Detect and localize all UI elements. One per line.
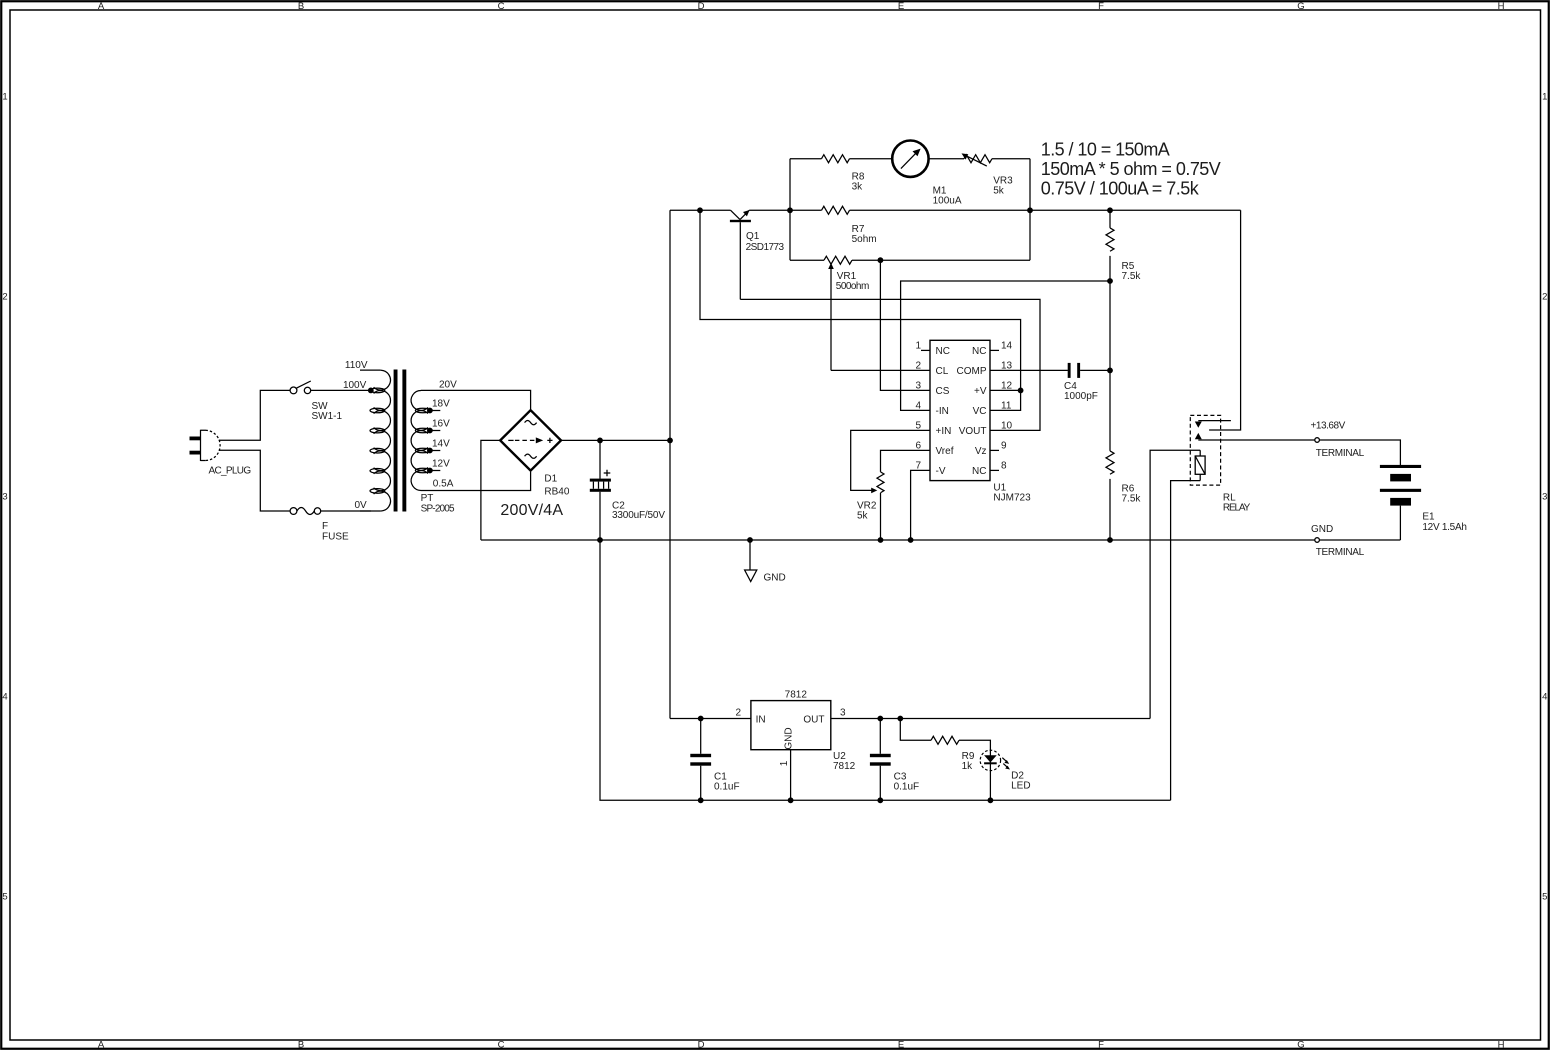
svg-text:8: 8: [1001, 460, 1007, 471]
svg-text:5k: 5k: [993, 186, 1005, 197]
svg-text:12V: 12V: [432, 459, 450, 470]
svg-text:LED: LED: [1011, 781, 1030, 792]
svg-text:D: D: [698, 1, 705, 12]
node 100V tap dot: [368, 388, 374, 394]
svg-text:4: 4: [2, 692, 7, 703]
svg-text:5: 5: [1542, 892, 1547, 903]
pin 14 stub: [990, 349, 999, 351]
pin 1 stub: [921, 349, 930, 351]
capacitor C4 1000pF: [1064, 363, 1110, 402]
svg-text:H: H: [1498, 1040, 1505, 1050]
op-amp regulator U1 NJM723: [915, 340, 1031, 503]
svg-text:4: 4: [1542, 692, 1547, 703]
svg-text:110V: 110V: [345, 360, 368, 371]
svg-text:3: 3: [915, 380, 921, 391]
svg-text:CL: CL: [936, 366, 949, 377]
pin names left: [936, 346, 954, 477]
wire -IN pin4 to R5 bottom: [901, 281, 1110, 410]
node emitter rail x790 junction: [787, 207, 793, 213]
AC plug AC_PLUG: [190, 430, 252, 477]
svg-text:150mA * 5 ohm = 0.75V: 150mA * 5 ohm = 0.75V: [1041, 159, 1221, 179]
svg-text:1: 1: [1542, 92, 1547, 103]
svg-text:200V/4A: 200V/4A: [500, 502, 563, 519]
wire main supply riser: [669, 210, 671, 718]
svg-text:7.5k: 7.5k: [1122, 271, 1142, 282]
svg-text:-V: -V: [936, 466, 946, 477]
wire meter loop right side: [1029, 159, 1031, 261]
meter M1 100uA: [892, 141, 962, 207]
wire relay coil to led rail: [1171, 481, 1201, 801]
wire collector rail: [670, 209, 731, 211]
wire relay coil to 7812 output: [1150, 450, 1200, 718]
wire 20V tap to bridge AC1: [421, 390, 531, 409]
node +V junction: [1018, 388, 1024, 394]
relay moving contact: [1195, 433, 1202, 439]
transformer PT SP-2005: [343, 360, 457, 514]
potentiometer VR1 500ohm: [790, 256, 1030, 370]
svg-text:3: 3: [1542, 492, 1547, 503]
svg-text:PT: PT: [421, 493, 434, 504]
svg-text:12: 12: [1001, 380, 1013, 391]
svg-text:Vz: Vz: [975, 446, 987, 457]
svg-text:A: A: [98, 1040, 105, 1050]
svg-text:11: 11: [1001, 400, 1012, 411]
wire 7812 input: [670, 718, 751, 720]
svg-text:C: C: [498, 1040, 505, 1050]
svg-text:NC: NC: [972, 466, 986, 477]
svg-text:IN: IN: [756, 714, 766, 725]
svg-text:SW1-1: SW1-1: [312, 411, 343, 422]
svg-text:14V: 14V: [432, 439, 450, 450]
wire plug to fuse: [219, 450, 290, 511]
svg-text:3k: 3k: [852, 181, 864, 192]
pin names right: [957, 346, 987, 477]
svg-text:Q1: Q1: [746, 231, 760, 242]
node terminal GND: [1315, 538, 1320, 543]
svg-text:VOUT: VOUT: [959, 426, 987, 437]
svg-text:COMP: COMP: [957, 366, 987, 377]
svg-text:0.75V / 100uA = 7.5k: 0.75V / 100uA = 7.5k: [1041, 179, 1200, 199]
transistor Q1 2SD1773: [730, 210, 785, 299]
svg-text:GND: GND: [1311, 524, 1333, 535]
node emitter rail x1030 junction: [1027, 207, 1033, 213]
svg-text:500ohm: 500ohm: [836, 281, 870, 292]
svg-text:2: 2: [2, 292, 7, 303]
svg-text:7: 7: [915, 460, 921, 471]
node ground rail R6 junction: [1107, 537, 1113, 543]
transformer core: [394, 370, 398, 512]
resistor R8 3k: [790, 155, 892, 193]
svg-text:F: F: [322, 521, 328, 532]
resistor R5 7.5k: [1106, 210, 1141, 451]
node ground rail VR2 junction: [878, 537, 884, 543]
svg-text:2: 2: [1542, 292, 1547, 303]
node plus rail riser junction: [667, 438, 673, 444]
svg-text:B: B: [298, 1040, 304, 1050]
wire CS pin3 to VR1 row: [880, 260, 930, 390]
svg-text:GND: GND: [784, 727, 795, 749]
svg-text:NC: NC: [972, 346, 986, 357]
wire CL pin2 to VR1 wiper: [831, 369, 930, 371]
svg-text:H: H: [1498, 1, 1505, 12]
node COMP R5 junction: [1107, 368, 1113, 374]
switch SW SW1-1: [290, 381, 342, 422]
svg-text:B: B: [298, 1, 304, 12]
wire COMP pin13 to C4: [990, 369, 1068, 371]
svg-text:+13.68V: +13.68V: [1311, 421, 1346, 432]
battery E1 12V 1.5Ah: [1380, 465, 1467, 540]
pin numbers left: [915, 340, 921, 471]
svg-text:CS: CS: [936, 386, 950, 397]
secondary tap stubs 18V 16V 14V 12V: [430, 411, 441, 471]
wire -V pin7 to ground rail: [911, 470, 930, 540]
svg-text:4: 4: [915, 400, 921, 411]
pin 8 stub: [990, 469, 999, 471]
wire plug to switch: [219, 390, 290, 440]
resistor R6 7.5k: [1106, 451, 1141, 540]
wire fuse to 0V tap: [321, 510, 371, 512]
svg-text:E1: E1: [1422, 512, 1435, 523]
svg-text:100uA: 100uA: [933, 195, 962, 206]
wire GND terminal to battery minus: [1319, 539, 1400, 541]
svg-text:9: 9: [1001, 440, 1007, 451]
svg-text:2: 2: [915, 360, 921, 371]
svg-text:100V: 100V: [343, 380, 367, 391]
svg-text:D1: D1: [544, 474, 557, 485]
capacitor C1 0.1uF: [690, 719, 739, 801]
svg-text:G: G: [1297, 1040, 1304, 1050]
node led rail C1 junction: [698, 797, 704, 803]
wire +V pin12 stub: [990, 389, 1021, 391]
svg-text:5: 5: [2, 892, 7, 903]
svg-text:TERMINAL: TERMINAL: [1316, 448, 1365, 459]
svg-text:7.5k: 7.5k: [1122, 493, 1142, 504]
node led rail D2 junction: [988, 797, 994, 803]
node ground rail -V junction: [908, 537, 914, 543]
node emitter rail R5 junction: [1107, 207, 1113, 213]
potentiometer VR2 5k: [857, 472, 884, 540]
svg-text:AC_PLUG: AC_PLUG: [209, 466, 252, 477]
wire 0.5A tap to bridge AC2: [421, 472, 531, 491]
svg-text:6: 6: [915, 440, 921, 451]
svg-text:TERMINAL: TERMINAL: [1316, 547, 1365, 558]
wire 7812 output: [831, 718, 1150, 720]
capacitor C3 0.1uF: [870, 719, 919, 801]
wire relay contact to battery plus: [1198, 439, 1315, 441]
svg-text:C: C: [498, 1, 505, 12]
svg-text:14: 14: [1001, 340, 1013, 351]
pin numbers right: [1001, 340, 1013, 471]
primary winding: [360, 370, 391, 511]
wire collector to +V pin12 and VC pin11: [700, 210, 1021, 410]
svg-text:0.5A: 0.5A: [433, 479, 454, 490]
wire emitter rail down to relay contact: [1209, 210, 1241, 430]
fuse F FUSE: [290, 508, 349, 543]
svg-text:12V 1.5Ah: 12V 1.5Ah: [1422, 522, 1467, 533]
svg-text:A: A: [98, 1, 105, 12]
resistor R7 5ohm: [822, 206, 877, 245]
relay fixed contact: [1198, 420, 1231, 422]
svg-text:RB40: RB40: [544, 487, 569, 498]
node VR1 row CS junction: [878, 257, 884, 263]
svg-text:GND: GND: [764, 573, 786, 584]
svg-text:VC: VC: [973, 406, 987, 417]
svg-text:+V: +V: [974, 386, 987, 397]
resistor R9 1k: [900, 719, 990, 773]
rheostat VR3 5k: [929, 153, 1030, 196]
node terminal +13.68V: [1315, 438, 1320, 443]
ground GND: [745, 540, 786, 584]
wire base to VOUT pin10: [740, 299, 1040, 430]
node R9 branch junction: [897, 716, 903, 722]
wire bridge minus to ground rail: [481, 440, 500, 540]
svg-text:1000pF: 1000pF: [1064, 391, 1098, 402]
svg-text:F: F: [1098, 1040, 1104, 1050]
svg-text:1: 1: [779, 760, 790, 766]
node -IN R5 junction: [1107, 278, 1113, 284]
node ground rail C2 junction: [597, 537, 603, 543]
node led rail U2 GND junction: [788, 797, 794, 803]
svg-text:RELAY: RELAY: [1223, 503, 1251, 514]
bridge rectifier D1 RB40: [500, 410, 570, 519]
svg-text:1: 1: [915, 340, 921, 351]
svg-text:2: 2: [735, 708, 741, 719]
node collector branch junction: [697, 207, 703, 213]
node ground rail GND branch junction: [747, 537, 753, 543]
node led rail C3 junction: [877, 797, 883, 803]
wire led section ground rail: [600, 540, 1171, 800]
svg-text:G: G: [1297, 1, 1304, 12]
wire terminal to battery: [1319, 440, 1400, 465]
annotation note: [1041, 140, 1221, 199]
svg-text:1: 1: [2, 92, 7, 103]
node C3 top junction: [877, 716, 883, 722]
svg-text:16V: 16V: [432, 419, 450, 430]
svg-text:+IN: +IN: [936, 426, 952, 437]
secondary winding: [411, 391, 430, 491]
svg-text:1k: 1k: [962, 761, 974, 772]
svg-text:0.1uF: 0.1uF: [894, 781, 920, 792]
svg-text:13: 13: [1001, 360, 1013, 371]
svg-text:5ohm: 5ohm: [852, 234, 877, 245]
pin 9 stub: [990, 449, 999, 451]
svg-text:NJM723: NJM723: [993, 493, 1031, 504]
svg-text:0.1uF: 0.1uF: [714, 781, 740, 792]
wire bridge plus rail: [561, 439, 670, 441]
svg-text:5k: 5k: [857, 511, 869, 522]
svg-text:0V: 0V: [354, 500, 367, 511]
svg-text:1.5 / 10 = 150mA: 1.5 / 10 = 150mA: [1041, 140, 1170, 160]
wire main ground rail: [481, 539, 1315, 541]
node C2 top junction: [597, 438, 603, 444]
svg-text:5: 5: [915, 420, 921, 431]
relay coil: [1195, 456, 1205, 474]
svg-text:10: 10: [1001, 420, 1013, 431]
svg-text:E: E: [898, 1040, 904, 1050]
svg-text:3300uF/50V: 3300uF/50V: [612, 510, 665, 521]
svg-text:Vref: Vref: [936, 446, 954, 457]
node C1 top junction: [698, 716, 704, 722]
relay RL RELAY: [1190, 415, 1250, 513]
svg-text:2SD1773: 2SD1773: [746, 242, 785, 253]
svg-text:D: D: [698, 1040, 705, 1050]
svg-text:OUT: OUT: [803, 714, 824, 725]
wire meter loop left side: [789, 159, 791, 261]
svg-text:7812: 7812: [785, 690, 808, 701]
svg-text:SP-2005: SP-2005: [421, 503, 455, 514]
capacitor C2 3300uF/50V: [590, 440, 666, 540]
svg-text:18V: 18V: [432, 399, 450, 410]
led D2: [980, 750, 1030, 800]
svg-text:3: 3: [2, 492, 7, 503]
wire Vref pin6 to VR2 top: [881, 450, 931, 472]
svg-text:NC: NC: [936, 346, 950, 357]
svg-text:F: F: [1098, 1, 1104, 12]
regulator U2 7812: [735, 690, 855, 801]
wire +IN pin5 to VR2 wiper: [851, 430, 930, 490]
svg-text:FUSE: FUSE: [322, 532, 349, 543]
svg-text:E: E: [898, 1, 904, 12]
svg-text:20V: 20V: [439, 380, 457, 391]
svg-text:3: 3: [840, 708, 846, 719]
svg-text:7812: 7812: [833, 761, 856, 772]
wire emitter rail: [749, 209, 1240, 211]
wire switch to 100V tap: [311, 389, 371, 391]
svg-text:-IN: -IN: [936, 406, 949, 417]
